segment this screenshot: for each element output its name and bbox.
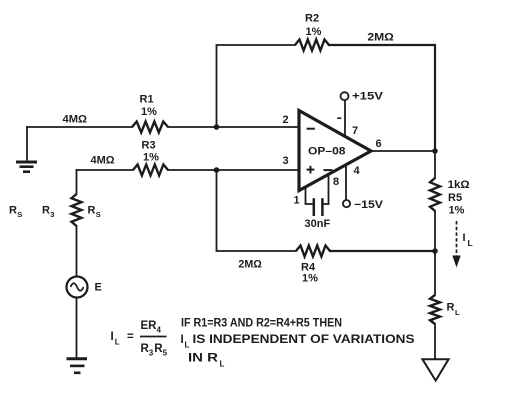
- svg-text:I: I: [111, 331, 114, 343]
- svg-text:1%: 1%: [449, 205, 465, 217]
- svg-text:S: S: [17, 210, 22, 219]
- svg-text:IF R1=R3 AND R2=R4+R5 THEN: IF R1=R3 AND R2=R4+R5 THEN: [181, 318, 342, 330]
- svg-text:E: E: [95, 282, 102, 294]
- svg-text:L: L: [220, 360, 225, 369]
- svg-text:R: R: [42, 205, 50, 217]
- svg-text:R: R: [88, 205, 96, 217]
- svg-text:2MΩ: 2MΩ: [367, 32, 394, 44]
- svg-text:L: L: [185, 341, 190, 350]
- svg-text:S: S: [96, 210, 101, 219]
- svg-text:OP–08: OP–08: [308, 146, 346, 158]
- svg-text:30nF: 30nF: [305, 218, 331, 230]
- svg-text:R: R: [447, 302, 455, 314]
- svg-text:IN R: IN R: [188, 353, 219, 365]
- svg-text:3: 3: [149, 349, 154, 358]
- svg-text:3: 3: [283, 155, 289, 167]
- svg-text:1%: 1%: [306, 26, 322, 38]
- svg-text:3: 3: [50, 210, 54, 219]
- svg-text:R5: R5: [448, 192, 462, 204]
- svg-text:I: I: [181, 334, 184, 346]
- svg-text:5: 5: [163, 349, 168, 358]
- svg-text:ER: ER: [141, 320, 158, 332]
- svg-text:1%: 1%: [141, 106, 157, 118]
- svg-text:2: 2: [283, 114, 289, 126]
- svg-text:4: 4: [354, 165, 361, 177]
- svg-text:IS INDEPENDENT OF VARIATIONS: IS INDEPENDENT OF VARIATIONS: [193, 334, 415, 346]
- svg-text:4MΩ: 4MΩ: [91, 155, 115, 167]
- svg-text:R1: R1: [140, 94, 154, 106]
- svg-text:=: =: [127, 331, 134, 343]
- svg-text:1%: 1%: [143, 152, 159, 164]
- svg-text:4MΩ: 4MΩ: [63, 114, 88, 126]
- svg-text:L: L: [468, 238, 473, 248]
- svg-text:2MΩ: 2MΩ: [238, 259, 262, 271]
- svg-text:7: 7: [352, 125, 358, 137]
- svg-text:I: I: [463, 232, 466, 244]
- svg-text:1kΩ: 1kΩ: [448, 179, 470, 191]
- svg-text:1%: 1%: [302, 273, 318, 285]
- svg-text:R2: R2: [305, 13, 319, 25]
- svg-text:1: 1: [294, 195, 300, 207]
- svg-text:R: R: [9, 205, 17, 217]
- svg-text:L: L: [455, 308, 460, 317]
- svg-text:4: 4: [157, 326, 162, 335]
- svg-text:−15V: −15V: [354, 199, 384, 211]
- svg-text:8: 8: [333, 176, 339, 188]
- svg-text:L: L: [115, 338, 120, 347]
- svg-text:6: 6: [376, 138, 382, 150]
- svg-text:R3: R3: [142, 140, 156, 152]
- svg-text:+15V: +15V: [352, 91, 384, 103]
